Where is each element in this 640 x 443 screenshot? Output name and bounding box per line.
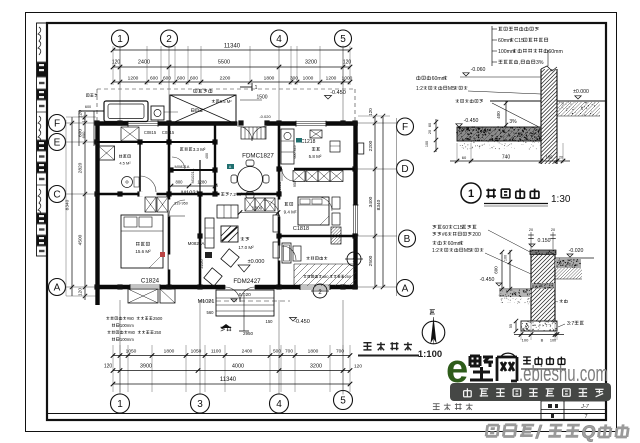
svg-text:1050: 1050 <box>126 349 137 355</box>
svg-text:C0815: C0815 <box>144 130 157 135</box>
svg-text:400: 400 <box>496 111 501 119</box>
svg-text:1800: 1800 <box>252 206 263 212</box>
svg-text:1800: 1800 <box>308 349 319 355</box>
svg-text:±0.000: ±0.000 <box>573 89 589 95</box>
svg-text:0.150: 0.150 <box>538 238 551 244</box>
svg-text:2220: 2220 <box>199 259 204 269</box>
svg-text:600: 600 <box>81 131 86 138</box>
svg-text:3200: 3200 <box>310 364 322 370</box>
svg-text:B: B <box>404 234 411 245</box>
svg-text:1:2: 1:2 <box>432 248 439 254</box>
svg-text:2820: 2820 <box>78 162 84 173</box>
svg-text:1100: 1100 <box>211 349 222 355</box>
svg-text:2950: 2950 <box>243 331 254 336</box>
svg-text:15.6 M²: 15.6 M² <box>135 249 151 254</box>
svg-text:1800: 1800 <box>164 349 175 355</box>
svg-text:100: 100 <box>550 339 556 343</box>
svg-text:600: 600 <box>494 266 499 274</box>
svg-text:120: 120 <box>354 364 362 370</box>
svg-text:2200: 2200 <box>368 140 374 151</box>
svg-text:800: 800 <box>176 180 184 185</box>
svg-text:A: A <box>54 282 61 293</box>
svg-text:60: 60 <box>462 155 467 160</box>
svg-text:±0.000: ±0.000 <box>248 259 265 265</box>
svg-text:-0.060: -0.060 <box>471 67 486 73</box>
svg-text:100: 100 <box>522 338 529 343</box>
svg-text:11340: 11340 <box>220 377 237 383</box>
svg-text:C1824: C1824 <box>141 278 160 285</box>
svg-text:4.5 M²: 4.5 M² <box>119 161 131 166</box>
svg-text:1050: 1050 <box>191 349 202 355</box>
svg-text:319 950: 319 950 <box>174 202 188 206</box>
svg-text:#80: #80 <box>128 330 136 335</box>
svg-text:6.5 M²: 6.5 M² <box>220 99 232 104</box>
svg-text:1: 1 <box>117 34 123 45</box>
svg-text:100mm: 100mm <box>120 337 134 342</box>
svg-text:4: 4 <box>276 399 282 410</box>
svg-text:11340: 11340 <box>224 44 241 50</box>
svg-text:-0.020: -0.020 <box>569 248 584 254</box>
svg-text:8340: 8340 <box>65 199 71 210</box>
svg-text:1: 1 <box>117 399 123 410</box>
svg-text:-0.450: -0.450 <box>294 319 310 325</box>
svg-text:4: 4 <box>276 34 282 45</box>
svg-text:C1818: C1818 <box>293 226 309 232</box>
svg-text:120: 120 <box>81 115 86 122</box>
svg-text:60mm: 60mm <box>548 49 562 55</box>
svg-text:600: 600 <box>177 76 185 82</box>
svg-text:M1021: M1021 <box>198 299 215 305</box>
svg-text:9.4 M²: 9.4 M² <box>284 210 297 215</box>
svg-text:4000: 4000 <box>232 364 244 370</box>
svg-text:300: 300 <box>290 76 298 82</box>
svg-text:60: 60 <box>428 123 432 127</box>
svg-text:3: 3 <box>197 399 203 410</box>
svg-text:560: 560 <box>207 310 215 315</box>
svg-text:B: B <box>541 338 544 343</box>
svg-text:-0.020: -0.020 <box>259 114 271 119</box>
svg-text:M0821A: M0821A <box>175 164 190 169</box>
svg-text:5500: 5500 <box>218 60 230 66</box>
svg-text:2400: 2400 <box>242 349 253 355</box>
svg-text:1200: 1200 <box>128 76 139 82</box>
svg-text:7: 7 <box>584 414 587 420</box>
svg-text:60: 60 <box>442 225 448 231</box>
svg-text:55: 55 <box>509 324 513 328</box>
svg-text:-0.450: -0.450 <box>330 90 346 96</box>
svg-text:1:100: 1:100 <box>418 349 442 360</box>
svg-text:120: 120 <box>368 108 373 116</box>
svg-text:3:7: 3:7 <box>567 321 574 327</box>
svg-text:4500: 4500 <box>78 234 84 245</box>
svg-text:A: A <box>402 283 409 294</box>
svg-text:.ebieshu.com: .ebieshu.com <box>519 361 608 386</box>
svg-text:F: F <box>54 118 60 129</box>
svg-text:2500: 2500 <box>368 255 374 266</box>
svg-text:-0.450: -0.450 <box>464 118 479 124</box>
svg-text:1000: 1000 <box>342 76 353 82</box>
svg-text:F: F <box>402 122 408 133</box>
svg-text:600: 600 <box>85 105 91 109</box>
svg-text:1000: 1000 <box>303 76 314 82</box>
svg-text:20: 20 <box>428 130 432 134</box>
svg-text:5.8 M²: 5.8 M² <box>309 154 322 159</box>
svg-text:20: 20 <box>559 156 563 160</box>
svg-text:C0815: C0815 <box>162 130 175 135</box>
svg-text:M0821A: M0821A <box>188 241 205 246</box>
svg-text:120: 120 <box>343 60 352 66</box>
svg-text:2200: 2200 <box>220 76 231 82</box>
svg-text:1200: 1200 <box>326 76 337 82</box>
svg-text:3%: 3% <box>509 119 517 125</box>
svg-text:-0.450: -0.450 <box>480 277 495 283</box>
svg-text:,: , <box>519 60 520 66</box>
svg-text:100: 100 <box>504 255 508 261</box>
svg-text:FDMC1827: FDMC1827 <box>242 153 274 160</box>
svg-text:740: 740 <box>502 155 511 161</box>
svg-text:20: 20 <box>551 228 555 232</box>
svg-text:1:30: 1:30 <box>551 194 571 205</box>
svg-text:120: 120 <box>112 60 121 66</box>
svg-text:180: 180 <box>546 155 554 160</box>
svg-text:1: 1 <box>468 188 474 200</box>
svg-text:3.3 M²: 3.3 M² <box>193 147 206 152</box>
svg-text:3400: 3400 <box>368 196 374 207</box>
svg-text:7.2 M²: 7.2 M² <box>230 192 243 197</box>
svg-text:C15: C15 <box>514 38 524 44</box>
svg-text:Q: Q <box>580 422 597 442</box>
svg-text:120: 120 <box>78 288 84 296</box>
svg-text:5: 5 <box>340 395 346 406</box>
svg-text:100mm: 100mm <box>120 323 134 328</box>
svg-text:700: 700 <box>336 349 344 355</box>
svg-text:FDM2427: FDM2427 <box>233 278 261 285</box>
svg-text:8340: 8340 <box>376 199 382 210</box>
svg-text:120: 120 <box>104 364 113 370</box>
svg-text:700: 700 <box>285 349 293 355</box>
svg-text:5: 5 <box>340 34 346 45</box>
svg-text:1800: 1800 <box>264 76 275 82</box>
svg-text:1500: 1500 <box>256 95 267 101</box>
svg-text:600: 600 <box>190 76 198 82</box>
svg-text:250: 250 <box>345 275 351 279</box>
svg-text:600 345: 600 345 <box>293 146 297 159</box>
svg-text:1280: 1280 <box>197 180 207 185</box>
svg-text:2400: 2400 <box>138 60 150 66</box>
svg-text:2: 2 <box>166 34 172 45</box>
svg-text:M1021: M1021 <box>181 191 199 197</box>
svg-text:600: 600 <box>150 76 158 82</box>
svg-text:150: 150 <box>266 319 274 324</box>
svg-text:500: 500 <box>273 349 281 355</box>
svg-text:#80: #80 <box>127 316 135 321</box>
svg-text:100: 100 <box>425 141 429 147</box>
svg-text:C1218: C1218 <box>301 139 316 145</box>
svg-text:E: E <box>54 137 61 148</box>
svg-text:#80: #80 <box>322 275 328 279</box>
svg-text:C15: C15 <box>453 225 463 231</box>
svg-text:3900: 3900 <box>140 364 152 370</box>
svg-text:#6: #6 <box>442 232 448 238</box>
svg-text:1:2: 1:2 <box>416 86 423 92</box>
svg-text:250: 250 <box>154 330 162 335</box>
svg-text:400: 400 <box>205 153 209 159</box>
svg-text:2500: 2500 <box>153 316 163 321</box>
svg-text:600: 600 <box>163 76 171 82</box>
svg-text:17.0 M²: 17.0 M² <box>238 245 254 250</box>
svg-text:20: 20 <box>529 228 533 232</box>
svg-text:D: D <box>401 164 408 175</box>
svg-text:3200: 3200 <box>305 60 317 66</box>
svg-text:M1021A: M1021A <box>190 168 195 183</box>
svg-text:3%: 3% <box>536 60 544 66</box>
svg-text:1: 1 <box>255 85 258 91</box>
svg-text:J-7: J-7 <box>580 404 590 410</box>
svg-text:C: C <box>53 189 60 200</box>
svg-text:200: 200 <box>472 232 481 238</box>
svg-text:M1021: M1021 <box>277 181 282 194</box>
